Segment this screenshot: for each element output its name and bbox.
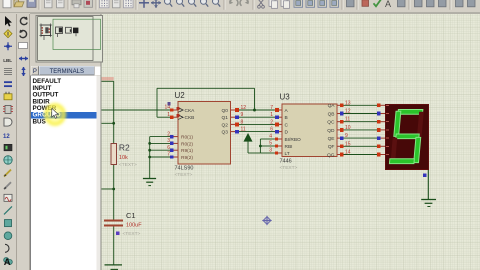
svg-text:12: 12 — [345, 109, 351, 115]
svg-text:6: 6 — [167, 145, 170, 151]
svg-text:7: 7 — [270, 105, 273, 111]
svg-text:CKA: CKA — [185, 108, 196, 114]
svg-text:C1: C1 — [126, 211, 136, 220]
svg-text:A: A — [4, 257, 11, 268]
svg-text:6: 6 — [270, 127, 273, 133]
svg-text:QF: QF — [328, 144, 335, 150]
svg-text:Q1: Q1 — [222, 115, 229, 121]
svg-text:<TEXT>: <TEXT> — [280, 165, 298, 171]
svg-text:BI/RBO: BI/RBO — [285, 137, 302, 143]
svg-text:U2: U2 — [175, 91, 186, 100]
svg-text:12: 12 — [241, 105, 247, 111]
svg-text:2: 2 — [167, 131, 170, 137]
svg-text:Q3: Q3 — [222, 130, 229, 136]
svg-text:1: 1 — [167, 112, 170, 118]
svg-text:74LS90: 74LS90 — [175, 166, 194, 172]
svg-text:RBI: RBI — [285, 144, 293, 150]
svg-text:2: 2 — [270, 119, 273, 125]
svg-text:8: 8 — [241, 119, 244, 125]
svg-text:9: 9 — [241, 112, 244, 118]
svg-text:Q2: Q2 — [222, 122, 229, 128]
svg-text:11: 11 — [345, 117, 350, 123]
svg-text:R9(2): R9(2) — [181, 155, 193, 161]
svg-text:<TEXT>: <TEXT> — [119, 162, 137, 168]
svg-text:3: 3 — [269, 148, 272, 154]
svg-text:B: B — [285, 115, 288, 121]
svg-text:4: 4 — [269, 134, 272, 140]
svg-text:R0(2): R0(2) — [181, 141, 193, 147]
svg-text:U3: U3 — [280, 93, 291, 102]
svg-text:R0(1): R0(1) — [181, 135, 193, 141]
svg-text:12: 12 — [3, 134, 10, 140]
svg-text:QB: QB — [328, 111, 335, 117]
svg-text:15: 15 — [345, 141, 351, 147]
svg-text:<TEXT>: <TEXT> — [123, 231, 141, 237]
svg-text:QD: QD — [327, 128, 335, 134]
svg-text:13: 13 — [345, 100, 351, 106]
svg-text:7: 7 — [167, 152, 170, 158]
svg-text:100uF: 100uF — [126, 223, 142, 229]
svg-text:QG: QG — [327, 152, 335, 158]
svg-text:P: P — [33, 69, 37, 75]
svg-text:3: 3 — [167, 138, 170, 144]
svg-text:C: C — [285, 122, 289, 128]
svg-text:7446: 7446 — [280, 159, 292, 165]
svg-text:BUS: BUS — [33, 118, 46, 125]
svg-text:11: 11 — [241, 127, 246, 133]
svg-text:LT: LT — [285, 151, 290, 157]
svg-text:D: D — [285, 130, 289, 136]
svg-text:Q0: Q0 — [222, 108, 229, 114]
svg-text:QC: QC — [327, 120, 335, 126]
svg-text:QA: QA — [328, 103, 336, 109]
svg-text:QE: QE — [328, 136, 335, 142]
svg-text:A: A — [385, 0, 391, 9]
svg-text:9: 9 — [345, 133, 348, 139]
svg-text:5: 5 — [269, 141, 272, 147]
svg-text:R9(1): R9(1) — [181, 148, 193, 154]
svg-text:14: 14 — [164, 105, 170, 111]
svg-text:1: 1 — [270, 112, 273, 118]
svg-text:<TEXT>: <TEXT> — [175, 172, 193, 178]
svg-text:TERMINALS: TERMINALS — [50, 69, 84, 75]
svg-text:R2: R2 — [119, 143, 130, 153]
svg-text:CKB: CKB — [185, 115, 195, 121]
svg-text:LBL: LBL — [3, 58, 12, 63]
svg-text:10k: 10k — [119, 155, 128, 161]
svg-text:10: 10 — [345, 125, 351, 131]
svg-text:14: 14 — [345, 150, 351, 156]
